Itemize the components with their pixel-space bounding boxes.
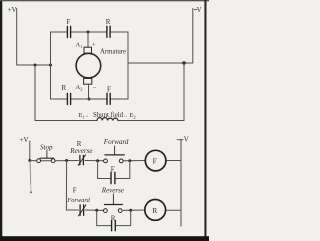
- wire: left middle connection: [17, 64, 51, 66]
- svg-text:Forward: Forward: [103, 138, 129, 146]
- svg-text:F: F: [153, 157, 157, 166]
- shunt field winding L1: [97, 118, 118, 121]
- wire: bridge top edge: [51, 31, 129, 33]
- wire: bridge left edge: [50, 32, 52, 99]
- wire: rung1 to rung2 vertical: [65, 161, 67, 211]
- svg-text:Reverse: Reverse: [101, 186, 124, 194]
- node: reverse button right: [129, 209, 132, 212]
- node: reverse button left: [95, 209, 98, 212]
- pushbutton Stop (NC): [37, 151, 55, 163]
- svg-text:R: R: [111, 215, 116, 223]
- wire: bridge bottom edge: [51, 98, 129, 100]
- wire: A2 stem to bottom edge: [88, 84, 90, 99]
- node: forward button left: [96, 159, 99, 162]
- svg-text:F: F: [111, 165, 115, 173]
- node A2 (bottom edge junction): [88, 98, 91, 101]
- contact F NC (forward interlock, rung 2): [78, 205, 86, 216]
- svg-text:..: ..: [124, 113, 128, 119]
- pushbutton Reverse (NO): [104, 194, 123, 213]
- svg-text:..: ..: [86, 113, 90, 119]
- wire: unused stub below rung1 left (fades): [29, 161, 32, 185]
- contact R NC (reverse interlock, rung 1): [78, 155, 86, 166]
- svg-text:V: V: [184, 136, 189, 144]
- svg-text:Armature: Armature: [100, 49, 126, 56]
- svg-text:Forward: Forward: [66, 197, 90, 204]
- contact R2 (bottom-left, reverse): [67, 94, 70, 105]
- wire: -V right rail (control circuit): [180, 139, 182, 226]
- wire: +V rail (left, top circuit): [16, 9, 18, 66]
- wire: +V drop to rung 1: [29, 141, 31, 161]
- -V supply label (control circuit): [177, 139, 183, 141]
- svg-text:F: F: [73, 187, 77, 195]
- armature M1: [76, 47, 101, 84]
- node: shunt-field tap (right): [182, 61, 186, 65]
- svg-text:+V: +V: [20, 136, 29, 144]
- wire: -V rail (right, top circuit): [192, 9, 194, 64]
- contact F (seal-in, rung 1): [111, 172, 115, 183]
- wire: right middle connection: [128, 62, 193, 64]
- svg-text:V: V: [197, 7, 202, 14]
- node: bridge left junction: [49, 64, 52, 67]
- wire: R seal-in branch: [97, 210, 131, 225]
- svg-text:F: F: [67, 18, 71, 26]
- contact F2 (bottom-right, forward): [107, 93, 110, 104]
- svg-text:Shunt field: Shunt field: [93, 112, 124, 119]
- svg-text:+: +: [92, 42, 96, 49]
- node: rung2 feed junction: [65, 159, 68, 162]
- svg-text:R: R: [62, 84, 67, 92]
- contact R (seal-in, rung 2): [112, 220, 116, 230]
- svg-text:R: R: [106, 18, 111, 26]
- contact R1 (top-right, reverse): [107, 26, 110, 37]
- coil R: [145, 200, 166, 221]
- wire: shunt field drop (left): [34, 65, 36, 121]
- wire: rung1 segments: [30, 160, 181, 162]
- svg-text:Stop: Stop: [40, 144, 53, 152]
- -V supply label (motor circuit): [194, 8, 197, 10]
- wire: shunt field drop (right): [183, 63, 185, 121]
- contact F1 (top-left, forward): [67, 27, 70, 38]
- wire: bridge right edge: [127, 32, 129, 99]
- svg-text:R: R: [152, 206, 157, 215]
- svg-text:F: F: [107, 86, 111, 94]
- node: shunt-field tap (left): [34, 64, 37, 67]
- node A1 (top edge junction): [87, 31, 90, 34]
- pushbutton Forward (NO): [104, 146, 125, 163]
- wire: shunt field line: [35, 120, 184, 122]
- wire: rung2 segments: [66, 209, 181, 211]
- svg-text:+V: +V: [8, 6, 17, 14]
- node: rung1 left: [28, 159, 31, 162]
- wire: A1 stem to brush: [87, 32, 89, 47]
- wire: F seal-in branch: [98, 161, 130, 179]
- node: forward button right: [128, 159, 131, 162]
- frame borders (decorative): [0, 0, 2, 241]
- svg-text:Reverse: Reverse: [69, 147, 92, 155]
- coil F: [145, 150, 166, 171]
